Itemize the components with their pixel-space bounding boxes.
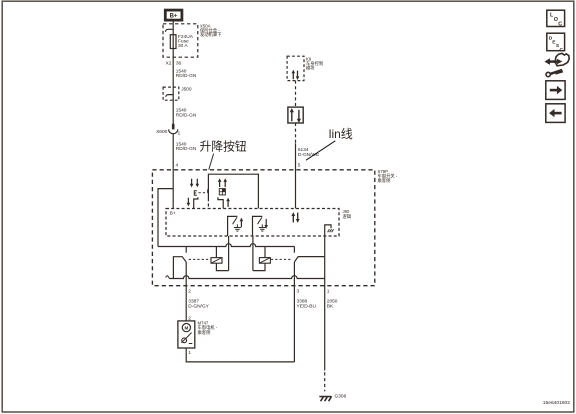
logic ground reference <box>325 225 334 236</box>
svg-text:B+: B+ <box>170 14 178 20</box>
relay 1 changeover contact <box>173 257 186 279</box>
svg-text:C: C <box>558 22 562 28</box>
relay 1 NO stub <box>185 247 187 253</box>
relay 2 NO stub <box>293 247 295 253</box>
wire 3387 D-GN/GY label <box>188 299 209 310</box>
svg-text:36: 36 <box>176 60 182 66</box>
ground return line with hops <box>169 276 324 279</box>
svg-text:3: 3 <box>297 288 300 294</box>
pin 1 ground wire <box>324 236 326 371</box>
relay 1 coil <box>189 236 229 271</box>
sidebar DESC button <box>547 33 565 53</box>
sidebar diagnostic icon <box>544 53 569 76</box>
ground wire dashed tail <box>324 372 326 391</box>
callout 升降按钮 <box>200 140 247 170</box>
wire B+ to X2 <box>172 21 174 125</box>
ground line end hook <box>166 276 170 279</box>
sidebar back arrow button <box>546 104 565 123</box>
pin 3 wire down <box>293 262 295 362</box>
svg-text:RD/D-GN: RD/D-GN <box>176 146 197 152</box>
svg-text:15e6401602: 15e6401602 <box>543 400 570 406</box>
wire 3388 YE/D-BU label <box>297 299 317 310</box>
up button detent symbol <box>219 189 225 195</box>
svg-text:2: 2 <box>188 288 191 294</box>
transistor driver down (T2) <box>253 216 269 236</box>
window switch S79P outer dashed box <box>152 169 397 286</box>
svg-text:B+: B+ <box>170 211 176 216</box>
svg-text:1: 1 <box>178 131 181 137</box>
svg-text:RD/D-GN: RD/D-GN <box>176 73 197 79</box>
wire to switch <box>172 134 174 209</box>
svg-text:M: M <box>184 326 188 331</box>
ground G306 <box>319 394 346 402</box>
down button arrows <box>190 179 199 188</box>
svg-text:乘客侧: 乘客侧 <box>198 329 211 336</box>
svg-text:模块: 模块 <box>306 64 315 71</box>
connector X2 pin 36 <box>166 60 182 66</box>
LIN bus symbol box <box>288 107 303 123</box>
BCM K9 dashed box <box>287 56 323 80</box>
relay 2 changeover contact <box>294 257 324 262</box>
transistor driver up (T1) <box>228 216 244 236</box>
sidebar LOC button <box>547 10 565 27</box>
logic module J90 inner dashed box <box>166 209 352 237</box>
down button lower contact <box>187 197 198 208</box>
svg-text:BK: BK <box>327 304 334 310</box>
svg-text:J500: J500 <box>181 87 192 93</box>
rocker button frame <box>208 174 258 208</box>
LIN wire dashed lower <box>295 123 297 143</box>
wire 1540 RD/D-GN label <box>176 68 197 79</box>
up button arrows <box>218 178 227 187</box>
svg-text:YE/D-BU: YE/D-BU <box>297 304 317 310</box>
LIN arrows inside logic box <box>291 212 299 223</box>
svg-text:1: 1 <box>188 350 191 356</box>
svg-text:D-GN/GY: D-GN/GY <box>188 304 209 310</box>
svg-text:X600: X600 <box>156 129 168 135</box>
pin 2 wire to motor <box>185 262 187 321</box>
svg-text:lin线: lin线 <box>329 127 353 141</box>
svg-text:5: 5 <box>298 162 301 168</box>
LIN wire dashed upper <box>295 81 297 108</box>
svg-text:X2: X2 <box>166 60 172 66</box>
battery B+ box <box>165 10 182 20</box>
svg-text:4: 4 <box>176 162 179 168</box>
in-line connector X600 pin 1 <box>156 124 181 137</box>
fuse F24UA <box>170 34 193 49</box>
down button contact E <box>194 191 197 196</box>
wire 1540 RD/D-GN label <box>176 141 197 152</box>
svg-text:逻辑: 逻辑 <box>343 213 352 220</box>
up button lower contact <box>218 197 230 208</box>
pin labels 2 3 1 <box>188 288 329 294</box>
wire 2050 BK label <box>327 299 338 310</box>
svg-text:D-GN/WE: D-GN/WE <box>298 152 319 158</box>
svg-text:C: C <box>560 47 564 53</box>
svg-text:乘客侧: 乘客侧 <box>378 177 391 184</box>
fuse box terminal hook <box>165 29 173 32</box>
motor return wire to pin 3 <box>186 348 294 362</box>
B+ bus with hops <box>158 244 295 247</box>
fuse block X50A dashed box <box>163 24 222 58</box>
wire 6134 D-GN/WE label <box>298 147 319 158</box>
svg-text:1: 1 <box>327 288 330 294</box>
wire 1540 RD/D-GN label <box>176 108 197 119</box>
svg-text:发动机罩下: 发动机罩下 <box>200 31 222 38</box>
svg-text:升降按钮: 升降按钮 <box>200 140 247 154</box>
relay 2 coil <box>253 236 292 271</box>
sidebar next arrow button <box>546 81 565 100</box>
window motor M747 <box>178 321 218 349</box>
wire 6134 to switch pin 5 <box>295 143 297 208</box>
serial data arrows in K9 <box>292 70 300 80</box>
mechanical link dashes <box>199 189 208 193</box>
svg-text:30 A: 30 A <box>178 43 188 49</box>
splice J500 <box>163 87 192 101</box>
svg-text:RD/D-GN: RD/D-GN <box>176 112 197 118</box>
B+ wire jog and bypass <box>158 189 173 247</box>
svg-text:G306: G306 <box>335 394 347 400</box>
callout lin线 <box>306 127 353 160</box>
